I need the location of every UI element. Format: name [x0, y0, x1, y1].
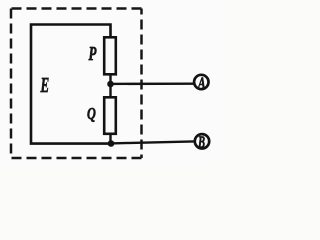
svg-text:Q: Q — [87, 105, 96, 123]
svg-text:P: P — [88, 42, 97, 65]
svg-text:E: E — [40, 73, 49, 97]
svg-text:A: A — [197, 74, 206, 93]
svg-text:B: B — [197, 133, 205, 152]
